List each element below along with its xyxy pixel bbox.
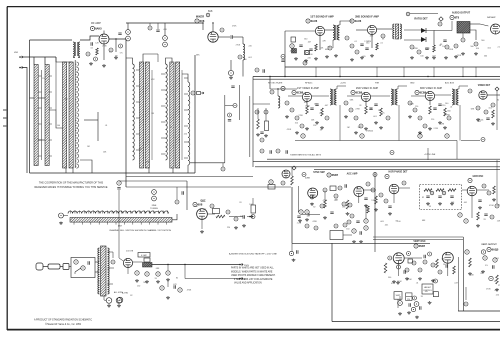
ground G32 bbox=[408, 115, 412, 118]
wire W69 bbox=[127, 23, 129, 30]
part callout C22 bbox=[410, 45, 414, 49]
svg-text:SYNC SEP: SYNC SEP bbox=[313, 172, 325, 174]
wire W75 bbox=[218, 36, 230, 38]
svg-text:270K: 270K bbox=[486, 288, 491, 290]
part callout C113 bbox=[74, 260, 78, 264]
wire W58 bbox=[136, 149, 140, 151]
ground G20 bbox=[256, 133, 260, 136]
svg-text:33: 33 bbox=[483, 219, 485, 221]
svg-text:.005: .005 bbox=[163, 29, 167, 31]
svg-text:560: 560 bbox=[304, 39, 307, 41]
wire W108 bbox=[270, 88, 297, 90]
label VERT OUTPUT bbox=[481, 244, 497, 246]
junction D8 bbox=[339, 76, 340, 77]
wire W117 bbox=[347, 95, 361, 97]
svg-text:A-MIXER GRID B-SOUND TAKEOFF: A-MIXER GRID B-SOUND TAKEOFF +125V LINE bbox=[229, 253, 277, 256]
part callout C50 bbox=[481, 138, 485, 142]
label bbox=[208, 10, 213, 13]
part callout C86 bbox=[364, 226, 368, 230]
part callout C114 bbox=[81, 266, 85, 270]
wire W67 bbox=[187, 165, 189, 173]
wire W50 bbox=[161, 105, 166, 107]
values sync row bbox=[297, 199, 376, 230]
tube callout V1 6AK5 bbox=[90, 26, 102, 30]
svg-text:.01: .01 bbox=[170, 127, 173, 129]
svg-text:.047: .047 bbox=[494, 290, 498, 292]
svg-text:.01: .01 bbox=[90, 48, 93, 50]
wire W199 bbox=[118, 240, 120, 258]
part callout C12 bbox=[206, 13, 210, 17]
label OSC bbox=[200, 200, 205, 203]
svg-text:220: 220 bbox=[442, 105, 445, 107]
ground G70 bbox=[392, 280, 396, 283]
junction D18 bbox=[167, 264, 168, 265]
svg-text:+125V: +125V bbox=[340, 83, 347, 85]
part callout C28 bbox=[454, 44, 458, 48]
test point TP3 bbox=[292, 166, 296, 170]
wire W181 bbox=[373, 239, 463, 241]
ground G29 bbox=[364, 127, 368, 130]
part callout C54 bbox=[445, 134, 449, 138]
part callout C136 bbox=[483, 256, 487, 260]
mixer coil form B6 bbox=[145, 62, 149, 168]
wire W133 bbox=[190, 162, 225, 164]
svg-text:1ST SOUND IF AMP: 1ST SOUND IF AMP bbox=[310, 16, 334, 19]
svg-text:270K: 270K bbox=[445, 114, 450, 116]
svg-text:470K: 470K bbox=[449, 49, 454, 51]
wire W187 bbox=[108, 252, 114, 258]
svg-text:A PRODUCT OF STANDARD RADIATIO: A PRODUCT OF STANDARD RADIATION SCHEMATI… bbox=[34, 319, 92, 322]
svg-text:82: 82 bbox=[313, 207, 315, 209]
svg-text:220: 220 bbox=[370, 131, 373, 133]
svg-text:470K: 470K bbox=[323, 200, 328, 202]
wire W44 bbox=[161, 73, 166, 75]
junction D7 bbox=[284, 76, 285, 77]
svg-text:560: 560 bbox=[442, 258, 445, 260]
part callout C96 bbox=[487, 191, 491, 195]
ground G49 bbox=[374, 208, 378, 211]
svg-text:470K: 470K bbox=[413, 48, 418, 50]
capacitor C37 bbox=[281, 60, 284, 62]
wire W171 bbox=[433, 67, 435, 77]
svg-text:82: 82 bbox=[422, 197, 424, 199]
ground G56 bbox=[476, 224, 480, 227]
svg-text:RECEIVER MAKES IT POSSIBLE TO: RECEIVER MAKES IT POSSIBLE TO BRING YOU … bbox=[34, 186, 107, 189]
part callout C84 bbox=[348, 203, 352, 207]
wire W198 bbox=[119, 258, 123, 261]
part callout C103 bbox=[350, 214, 354, 218]
wire W149 bbox=[201, 219, 203, 229]
ground G46 bbox=[323, 216, 327, 219]
wire W37 bbox=[103, 31, 105, 35]
wire W193 bbox=[167, 265, 169, 271]
label VERT OSC bbox=[413, 240, 425, 243]
wire W112 bbox=[337, 86, 346, 89]
svg-text:RF AGC: RF AGC bbox=[305, 82, 313, 85]
ground G24 bbox=[305, 127, 309, 130]
wire W71 bbox=[164, 23, 166, 36]
capacitor C2 bbox=[299, 45, 302, 47]
wire W184 bbox=[69, 266, 71, 268]
ground G38 bbox=[476, 118, 480, 121]
svg-text:.01: .01 bbox=[354, 41, 357, 43]
svg-text:270K: 270K bbox=[232, 26, 237, 28]
resistor bbox=[492, 110, 495, 118]
tube hor osc bbox=[467, 186, 477, 196]
part callout C52 bbox=[360, 134, 364, 138]
part callout C41 bbox=[349, 108, 353, 112]
ground G30 bbox=[374, 121, 378, 124]
resistor box R21 bbox=[251, 205, 256, 213]
part callout C46 bbox=[413, 108, 417, 112]
lamp PL3 bbox=[117, 297, 123, 303]
label 6U8B bbox=[305, 178, 310, 180]
part callout C57 bbox=[484, 110, 488, 114]
part callout C45 bbox=[408, 101, 412, 105]
wire W81 bbox=[253, 78, 500, 80]
svg-text:RF AMP: RF AMP bbox=[91, 21, 101, 25]
svg-text:.047: .047 bbox=[324, 105, 328, 107]
part callout C122 bbox=[281, 55, 285, 59]
ground G55 bbox=[492, 198, 496, 201]
wire W136 bbox=[267, 158, 500, 160]
svg-text:470K: 470K bbox=[312, 221, 317, 223]
wire W4 bbox=[30, 39, 73, 41]
tube sync inv bbox=[354, 187, 364, 197]
svg-text:150: 150 bbox=[415, 106, 418, 108]
wafer switch callout bbox=[59, 213, 64, 218]
wire W80 bbox=[253, 76, 500, 78]
note white parts line3 bbox=[231, 274, 276, 277]
capacitor C3 bbox=[156, 30, 159, 32]
wire W172 bbox=[462, 67, 464, 77]
ground G73 bbox=[415, 316, 419, 319]
channel selector strip S2 bbox=[70, 218, 172, 223]
wire W51 bbox=[184, 109, 188, 111]
part callout C44 bbox=[386, 116, 390, 120]
tube callout V osc bbox=[193, 202, 203, 206]
svg-text:220: 220 bbox=[407, 299, 410, 301]
capacitor C31 bbox=[356, 221, 359, 223]
svg-text:560: 560 bbox=[388, 277, 391, 279]
label HEIGHT2 bbox=[423, 290, 432, 292]
svg-text:6CB6: 6CB6 bbox=[356, 91, 363, 95]
resistor R41 bbox=[384, 263, 387, 273]
resistor R10 bbox=[315, 44, 318, 51]
capacitor C30 bbox=[231, 86, 234, 88]
label HOR PHASE DET bbox=[389, 171, 408, 174]
part callout C74 bbox=[338, 186, 342, 190]
ground G14 bbox=[410, 56, 414, 59]
values audio det bbox=[130, 268, 192, 297]
part callout C78 bbox=[310, 195, 314, 199]
part callout C69 bbox=[226, 210, 230, 214]
wire W88 bbox=[325, 29, 333, 31]
wire W5 bbox=[33, 57, 35, 65]
part callout C118 bbox=[156, 272, 160, 276]
wire W6 bbox=[44, 57, 46, 65]
part callout C125 bbox=[347, 220, 351, 224]
svg-text:6AQ5: 6AQ5 bbox=[492, 248, 499, 252]
capacitor C38 bbox=[360, 231, 362, 234]
part callout C1 bbox=[94, 57, 98, 61]
svg-text:VIDEO DET: VIDEO DET bbox=[478, 85, 491, 87]
wire W85 bbox=[285, 30, 315, 32]
terminal 250V bbox=[239, 263, 243, 265]
ground G64 bbox=[145, 280, 149, 283]
ground G61 bbox=[107, 304, 111, 307]
ground G37 bbox=[491, 122, 495, 125]
svg-text:2ND SOUND IF AMP: 2ND SOUND IF AMP bbox=[355, 16, 379, 19]
wire W203 bbox=[447, 263, 449, 276]
resistor R20 bbox=[216, 215, 225, 218]
part callout C33 bbox=[270, 90, 274, 94]
junction D1 bbox=[73, 56, 75, 58]
wire W7 bbox=[56, 57, 72, 62]
svg-text:220: 220 bbox=[227, 227, 230, 229]
svg-text:.001: .001 bbox=[495, 258, 499, 260]
wire W14 bbox=[65, 168, 67, 173]
wire W66 bbox=[172, 168, 174, 173]
tube callout 2ND VIDEO IF AMP bbox=[351, 90, 363, 94]
capacitor C41 bbox=[493, 265, 495, 268]
svg-text:150: 150 bbox=[346, 229, 349, 231]
svg-text:100: 100 bbox=[358, 127, 361, 129]
part callout C17 bbox=[328, 46, 332, 50]
wire W196 bbox=[167, 281, 169, 287]
ground G31 bbox=[379, 126, 383, 129]
wire W173 bbox=[475, 67, 477, 77]
note cooperation line1 bbox=[39, 182, 104, 185]
wire W139 bbox=[427, 148, 429, 160]
bus label AGC BUS bbox=[445, 82, 455, 85]
tube 1ST VIDEO IF AMP bbox=[302, 92, 311, 101]
svg-text:150: 150 bbox=[137, 286, 140, 288]
wire W97 bbox=[434, 30, 452, 32]
part callout C129 bbox=[388, 256, 392, 260]
capacitor C39 bbox=[424, 255, 426, 258]
wire W18 bbox=[84, 119, 98, 121]
wire W110 bbox=[312, 95, 329, 97]
note white parts line1 bbox=[231, 267, 275, 270]
wire W59 bbox=[161, 153, 166, 155]
svg-text:6AK5: 6AK5 bbox=[95, 27, 102, 31]
part callout C47 bbox=[418, 116, 422, 120]
svg-text:100: 100 bbox=[478, 121, 481, 123]
capacitor C15 bbox=[486, 118, 489, 120]
ratio det primary L6 bbox=[393, 24, 395, 39]
part callout C10 bbox=[238, 55, 242, 59]
wire W13 bbox=[126, 176, 253, 178]
svg-text:VERT OUTPUT: VERT OUTPUT bbox=[481, 244, 497, 246]
wire W78 bbox=[230, 60, 232, 70]
svg-text:.005: .005 bbox=[398, 260, 402, 262]
capacitor C11 bbox=[369, 108, 372, 110]
svg-text:560: 560 bbox=[139, 148, 142, 150]
tube vert osc B bbox=[442, 252, 453, 263]
wire W56 bbox=[161, 137, 166, 139]
capacitor C3 bbox=[309, 49, 312, 51]
height control box bbox=[422, 284, 433, 294]
wire W16 bbox=[80, 160, 92, 173]
tube vert osc A bbox=[393, 253, 404, 264]
svg-text:6U8B: 6U8B bbox=[305, 178, 310, 180]
note cooperation line2 bbox=[34, 186, 107, 189]
arrow mixer feed bbox=[201, 92, 204, 94]
svg-text:.001: .001 bbox=[463, 202, 467, 204]
video IF transformer bbox=[330, 89, 337, 105]
svg-text:82: 82 bbox=[481, 273, 483, 275]
box AUX bbox=[213, 209, 220, 214]
label VHF bbox=[14, 52, 19, 54]
box mixer feed bbox=[197, 92, 201, 95]
part callout C104 bbox=[305, 224, 309, 228]
RF coil form B4 bbox=[69, 62, 73, 168]
wire W15 bbox=[72, 168, 74, 173]
svg-text:.047: .047 bbox=[307, 42, 311, 44]
capacitor C7 bbox=[443, 40, 446, 42]
svg-text:150: 150 bbox=[194, 206, 197, 208]
capacitor C16 bbox=[270, 150, 272, 153]
label 4.5MC bbox=[141, 255, 147, 257]
label +125V LINE bbox=[424, 154, 436, 156]
part callout C37 bbox=[295, 116, 299, 120]
box L2 coil bbox=[138, 253, 150, 258]
svg-text:220: 220 bbox=[249, 46, 252, 48]
terminal to mixer bbox=[249, 215, 253, 217]
ground G21 bbox=[264, 134, 268, 137]
wire W10 bbox=[49, 110, 63, 128]
resistor bbox=[444, 108, 447, 116]
svg-text:100: 100 bbox=[240, 216, 243, 218]
wire W54 bbox=[184, 125, 188, 127]
ground G76 bbox=[495, 288, 499, 291]
part callout C67 bbox=[152, 196, 157, 201]
wire W103 bbox=[451, 21, 453, 31]
wire W19 bbox=[41, 70, 43, 160]
box grid bbox=[144, 258, 150, 262]
wire W127 bbox=[459, 105, 461, 141]
tube callout V3 bbox=[306, 19, 318, 23]
svg-text:150: 150 bbox=[42, 78, 45, 80]
wire W92 bbox=[371, 35, 373, 48]
tube sync sep bbox=[308, 188, 318, 198]
part callout C128 bbox=[423, 260, 427, 264]
wire W202 bbox=[398, 264, 400, 276]
svg-text:5%: 5% bbox=[327, 47, 330, 49]
RF coil form B3 bbox=[63, 62, 67, 168]
svg-text:1M: 1M bbox=[347, 127, 350, 129]
wire W120 bbox=[459, 86, 468, 89]
junction D4 bbox=[202, 22, 203, 23]
capacitor C31 bbox=[228, 120, 231, 122]
resistor R14 box bbox=[265, 121, 269, 131]
part callout C127 bbox=[428, 252, 432, 256]
ground G11 bbox=[360, 56, 364, 59]
wire W45 bbox=[184, 77, 188, 79]
part callout C34 bbox=[281, 86, 285, 90]
part callout C117 bbox=[145, 272, 149, 276]
wire W101 bbox=[462, 33, 464, 38]
label AUDIO OUTPUT bbox=[452, 12, 471, 15]
svg-text:.001: .001 bbox=[384, 225, 388, 227]
values hor section bbox=[380, 197, 500, 227]
osc coil L2 bbox=[133, 64, 135, 160]
wire W47 bbox=[161, 89, 166, 91]
wire W111 bbox=[306, 102, 308, 106]
ground G27 bbox=[344, 115, 348, 118]
wire W11 bbox=[38, 139, 45, 141]
svg-text:MIXER: MIXER bbox=[196, 15, 204, 19]
svg-text:82: 82 bbox=[176, 277, 178, 279]
wire W68 bbox=[126, 22, 203, 24]
part callout C108 bbox=[412, 261, 416, 265]
osc trimmer ladder L4 bbox=[188, 82, 190, 165]
part callout C66 bbox=[152, 190, 157, 195]
resistor R31 bbox=[448, 189, 456, 192]
pilot lamp PL1 bbox=[106, 298, 112, 304]
junction D2 bbox=[78, 56, 80, 58]
box vert bbox=[408, 259, 413, 263]
part callout C72 bbox=[302, 173, 306, 177]
ground G25 bbox=[315, 121, 319, 124]
wire W174 bbox=[301, 213, 320, 215]
tube phase det bbox=[389, 184, 399, 194]
capacitor C20 bbox=[182, 191, 184, 194]
wire W29 bbox=[49, 107, 52, 109]
wire W61 bbox=[126, 58, 133, 64]
wire W65 bbox=[148, 168, 150, 173]
wire W142 bbox=[118, 190, 120, 240]
ground G51 bbox=[426, 202, 430, 205]
wire W17 bbox=[97, 112, 99, 141]
bus label RF OSC PLATE bbox=[268, 82, 283, 85]
diode D2 ratio detector bbox=[421, 37, 426, 42]
tube 3RD VIDEO IF AMP bbox=[425, 91, 434, 100]
junction D3 bbox=[115, 38, 116, 39]
label AGC AMP bbox=[347, 173, 358, 176]
svg-text:A 4 PA: A 4 PA bbox=[122, 292, 128, 295]
svg-text:560: 560 bbox=[470, 46, 473, 48]
junction D5 bbox=[212, 22, 213, 23]
part callout C89 bbox=[379, 193, 383, 197]
part callout C63 bbox=[260, 149, 264, 153]
wire W74 bbox=[212, 23, 214, 32]
label SYNC SEP bbox=[313, 172, 325, 174]
svg-text:6U8: 6U8 bbox=[198, 203, 203, 207]
wire W28 bbox=[38, 107, 41, 109]
part callout C139 bbox=[464, 302, 468, 306]
padder block bbox=[292, 49, 297, 54]
resistor R13 bbox=[257, 119, 260, 129]
part callout C106 bbox=[343, 223, 347, 227]
ground G15 bbox=[432, 56, 436, 59]
capacitor C17 bbox=[286, 150, 288, 153]
svg-text:1/2 6T8: 1/2 6T8 bbox=[126, 251, 134, 253]
label heater bbox=[114, 291, 123, 294]
part callout C99 bbox=[490, 215, 494, 219]
svg-text:220: 220 bbox=[308, 58, 311, 60]
svg-text:470K: 470K bbox=[457, 55, 462, 57]
wire W186 bbox=[95, 271, 99, 273]
resistor R32 bbox=[493, 186, 496, 194]
bus label +125V bbox=[340, 83, 347, 85]
part callout C40 bbox=[344, 101, 348, 105]
wire W169 bbox=[376, 67, 378, 77]
part callout C124 bbox=[352, 229, 356, 233]
resistor RX2 bbox=[453, 266, 456, 274]
resistor bbox=[306, 106, 309, 114]
